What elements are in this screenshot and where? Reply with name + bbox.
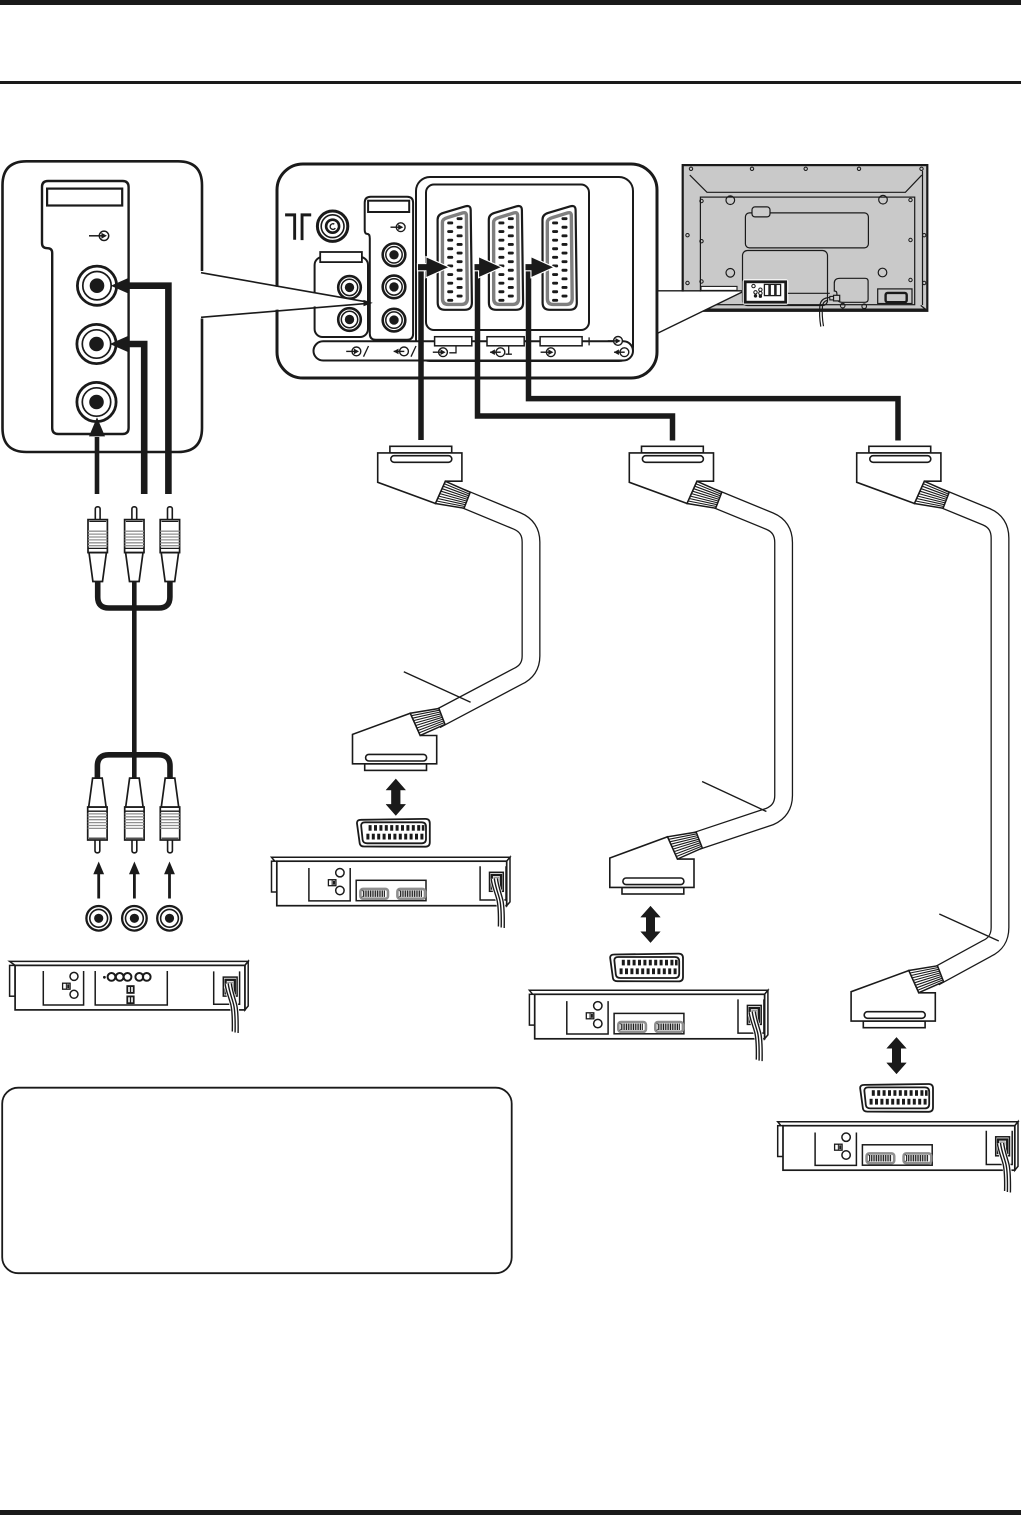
right side edge [922, 171, 924, 305]
scart cable 1 [436, 498, 531, 720]
RCA socket 3 [157, 906, 182, 931]
bottom rule [0, 1510, 1021, 1515]
left strip out icon [393, 346, 416, 357]
scart cable 2 [693, 498, 784, 843]
input icon [391, 223, 406, 232]
callout wedge tip [364, 300, 373, 306]
double arrow 3 [887, 1037, 907, 1074]
middle AV jack 2 [383, 276, 406, 299]
VCR 4 left tab [778, 1126, 784, 1157]
AV1 bracket label [435, 337, 472, 346]
VCR 1 middle panel [95, 971, 167, 1005]
scart plug 3 lower [851, 966, 944, 1028]
AV3 in icon [541, 348, 556, 357]
screw holes [726, 195, 887, 277]
RCA plug up 1 [88, 507, 107, 582]
RCA plug down 3 [160, 778, 179, 853]
scart plug 1 upper [378, 446, 471, 508]
left AV jack 2 [338, 308, 361, 331]
up arrow 2 [129, 862, 140, 899]
wire to AV3 plug [529, 267, 899, 440]
left AV jack 1 [338, 276, 361, 299]
antenna lead plug [834, 295, 840, 301]
VCR 3 left tab [529, 994, 535, 1025]
VCR 2 front face [277, 861, 507, 906]
middle AV jack 1 [383, 244, 406, 267]
scart plug 1 lower [353, 709, 446, 771]
top header bar [0, 0, 1021, 5]
wire jack2 [126, 344, 144, 494]
arrow into AV3 [526, 258, 554, 277]
VCR 3 front face [535, 994, 765, 1039]
inner SCART box [426, 185, 589, 331]
VCR 1 right face [245, 961, 248, 1010]
callout balloon outline [3, 161, 203, 452]
RCA plug up 3 [160, 507, 179, 582]
cable Y bottom [97, 755, 134, 779]
scart plug 2 lower [610, 832, 703, 894]
callout wedge from panel [658, 292, 742, 333]
scart cable 3 [935, 498, 1001, 977]
callout wedge white mask [200, 274, 366, 316]
wire to AV1 plug [418, 267, 424, 440]
double arrow 2 [641, 906, 661, 943]
arrow into AV2 [475, 258, 501, 277]
lower recess [743, 251, 828, 306]
stand slot [701, 286, 737, 290]
bottom label strip [314, 341, 634, 360]
back bulge [690, 175, 922, 192]
balloon jack 2 [77, 324, 116, 363]
double arrow 1 [386, 779, 406, 816]
left AV strip label window [320, 252, 362, 262]
SCART socket symbol 1 [357, 819, 430, 847]
up arrow 1 [93, 862, 104, 899]
wire to AV2 plug [478, 267, 673, 440]
AV1 in icon [433, 348, 448, 357]
RCA socket 2 [122, 906, 147, 931]
SCART area enclosure [416, 177, 633, 361]
VCR 3 power cord [749, 1011, 762, 1061]
monitor out icon [614, 348, 629, 357]
AV2 out icon [490, 348, 505, 357]
arrow into AV1 [418, 258, 448, 277]
scart plug 3 upper [857, 446, 950, 508]
VCR 1 power cord [225, 983, 238, 1033]
SCART socket symbol 2 [610, 954, 683, 982]
SCART socket AV2 [489, 206, 523, 310]
TV rear view body [683, 165, 928, 311]
VCR 4 front face [783, 1126, 1015, 1171]
AV3 bracket label [540, 337, 582, 346]
VCR 2 (scart device A) top face [272, 857, 511, 861]
balloon jack 3 [77, 382, 116, 421]
RCA plug down 1 [88, 778, 107, 853]
connector bay [834, 278, 868, 302]
power inlet right [878, 289, 912, 304]
up arrow 3 [164, 862, 175, 899]
VCR 4 power cord [997, 1143, 1010, 1193]
middle AV jack 3 [383, 309, 406, 332]
inner recess panel [700, 197, 914, 305]
antenna lead cord [820, 298, 830, 327]
RCA plug down 2 [125, 778, 144, 853]
wire jack1 [127, 286, 168, 494]
VCR 1 front face [15, 965, 245, 1010]
SCART socket AV1 [438, 206, 472, 310]
balloon jack 1 [77, 266, 116, 305]
antenna RF socket [317, 211, 347, 241]
arrow up into jack3 [95, 437, 100, 494]
VCR 1 top face [10, 961, 249, 965]
middle AV strip [365, 197, 413, 340]
VCR 1 left tab [10, 965, 16, 996]
scart plug 2 upper [629, 446, 722, 508]
leader line 3 [939, 914, 999, 941]
callout wedge bottom line [201, 304, 366, 318]
small screws [686, 167, 926, 285]
left strip in icon [346, 346, 368, 357]
TV rear connector panel outline [277, 164, 657, 378]
callout wedge top line [201, 273, 366, 302]
SCART socket AV3 [543, 206, 577, 310]
VCR 4 top face [778, 1122, 1018, 1126]
RCA socket 1 [86, 906, 111, 931]
note box [2, 1088, 512, 1274]
handle [752, 207, 770, 217]
VCR 4 panels [815, 1131, 1012, 1166]
left AV strip [315, 257, 368, 337]
VCR 4 right face [1015, 1122, 1018, 1171]
middle AV strip label window [368, 201, 409, 212]
aerial symbol [285, 213, 311, 240]
VCR 2 power cord [491, 878, 504, 928]
leader line 1 [404, 672, 471, 703]
header rule [0, 81, 1021, 84]
VCR 2 panels [309, 866, 506, 901]
VCR 3 panels [567, 999, 764, 1034]
bottom bezel [684, 308, 926, 311]
RCA plug up 2 [125, 507, 144, 582]
arrow into jack2 [110, 336, 128, 352]
leader line 2 [702, 782, 766, 812]
AV2 bracket label [487, 337, 524, 346]
VCR 1 left panel [43, 971, 83, 1005]
VCR 3 right face [765, 990, 768, 1039]
VCR 2 left tab [272, 861, 278, 892]
cable Y top [98, 581, 135, 608]
arrow into jack1 [111, 278, 129, 294]
VCR 1 power panel [214, 971, 240, 1004]
VCR 3 top face [529, 990, 768, 994]
VCR 2 right face [507, 857, 510, 906]
white connector panel [743, 279, 789, 305]
center recess [745, 213, 868, 248]
balloon AV strip [42, 181, 129, 434]
balloon input icon [89, 231, 109, 240]
monitor in icon [608, 337, 623, 346]
SCART socket symbol 3 [860, 1084, 933, 1112]
center cable [132, 581, 137, 779]
balloon label window [47, 189, 122, 206]
